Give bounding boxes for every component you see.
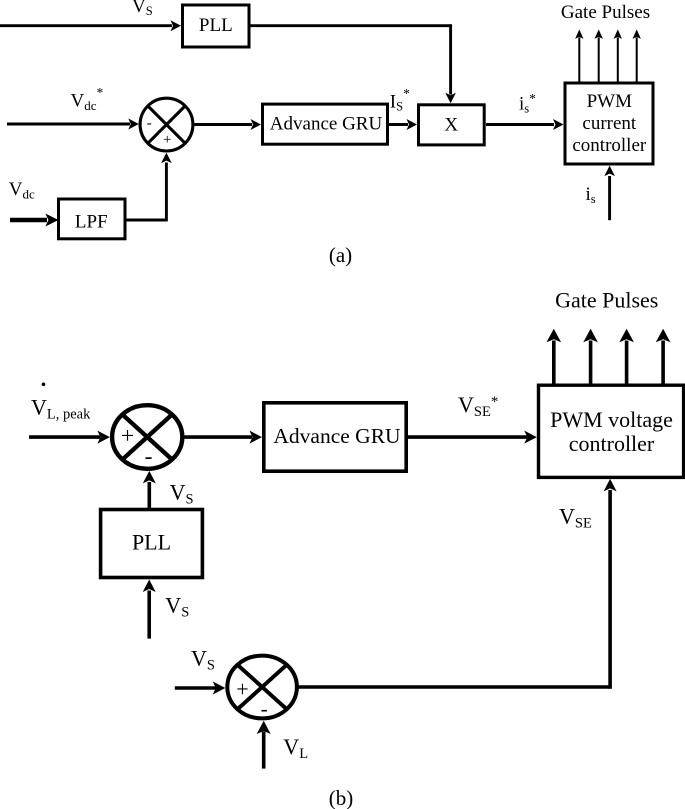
svg-text:Gate Pulses: Gate Pulses — [555, 288, 658, 313]
wire Vs input to PLL — [0, 20, 181, 31]
svg-text:-: - — [261, 696, 268, 720]
wire S2 to Advance GRU (b) — [184, 431, 262, 444]
gate pulse arrow b4 (thick) — [656, 329, 671, 386]
summing junction S1 — [140, 98, 193, 151]
svg-text:PWM: PWM — [587, 91, 633, 112]
svg-text:+: + — [163, 132, 171, 148]
wire Vs input to junction S3 — [175, 682, 226, 695]
gate pulse arrow a4 — [633, 29, 641, 81]
svg-text:(a): (a) — [329, 243, 352, 267]
wire S3 to PWM voltage controller — [297, 479, 617, 689]
svg-text:Advance GRU: Advance GRU — [273, 424, 401, 448]
label Vs into PLL (b) — [165, 593, 189, 621]
label Gate Pulses (b) — [555, 288, 658, 313]
label Gate Pulses (a) — [561, 2, 650, 23]
wire Advance GRU to PWM voltage controller — [408, 431, 537, 444]
label VL — [283, 734, 308, 762]
wire Vs input into PLL (b) — [143, 580, 156, 639]
svg-text:+: + — [236, 677, 248, 702]
wire X to PWM current controller — [486, 119, 564, 130]
wire VLpeak input to junction S2 — [29, 431, 110, 444]
block multiplier X — [419, 105, 485, 145]
gate pulse arrow a3 — [614, 29, 622, 81]
wire S1 to Advance GRU (a) — [194, 119, 261, 130]
summing junction S3 — [227, 656, 297, 721]
wire PLL (b) to junction S2 — [143, 471, 156, 508]
svg-text:current: current — [582, 113, 637, 134]
label is feedback — [586, 184, 596, 206]
svg-text:Gate Pulses: Gate Pulses — [561, 2, 650, 23]
svg-text:controller: controller — [569, 431, 655, 456]
label Vdc — [9, 179, 35, 202]
wire PLL to multiplier X — [249, 24, 456, 103]
wire is feedback into PWM current controller — [604, 166, 615, 221]
block PLL (b) — [101, 510, 203, 578]
label VSE feedback — [559, 504, 592, 532]
svg-text:-: - — [147, 116, 152, 132]
block Advance GRU (b) — [264, 403, 406, 471]
label Vdc* — [71, 85, 104, 113]
label (a) — [329, 243, 352, 267]
label VSE* — [458, 392, 498, 420]
label is* — [519, 91, 536, 116]
svg-text:PLL: PLL — [132, 530, 171, 555]
svg-text:Advance GRU: Advance GRU — [270, 114, 383, 135]
wire Advance GRU to X — [389, 119, 417, 130]
gate pulse arrow b3 (thick) — [619, 329, 634, 386]
label Vs above PLL (b) — [170, 480, 194, 508]
block LPF — [59, 199, 126, 239]
summing junction S2 — [112, 405, 182, 469]
svg-text:LPF: LPF — [75, 212, 108, 233]
block PLL (a) — [183, 5, 250, 47]
block PWM current controller — [565, 83, 653, 164]
svg-text:+: + — [121, 423, 134, 449]
svg-text:-: - — [145, 444, 153, 470]
gate pulse arrow b1 (thick) — [547, 329, 562, 386]
wire Vdc* input to junction S1 — [7, 119, 139, 130]
svg-text:PWM voltage: PWM voltage — [550, 407, 673, 432]
label (b) — [329, 786, 354, 809]
svg-text:PLL: PLL — [199, 15, 233, 36]
block PWM voltage controller — [539, 385, 684, 477]
gate pulse arrow a1 — [575, 29, 583, 81]
svg-text:controller: controller — [572, 135, 647, 156]
wire VL input to junction S3 — [257, 721, 271, 769]
block Advance GRU (a) — [263, 104, 388, 144]
svg-text:(b): (b) — [329, 786, 354, 809]
label VL,peak with dot — [31, 383, 91, 423]
svg-text:X: X — [444, 115, 458, 136]
gate pulse arrow a2 — [595, 29, 603, 81]
label Vs (a) — [132, 0, 153, 18]
wire LPF to junction S1 — [125, 153, 172, 222]
label Is* — [390, 86, 410, 114]
gate pulse arrow b2 (thick) — [583, 329, 598, 386]
label Vs into junction S3 — [191, 646, 215, 674]
wire Vdc input to LPF (thick) — [10, 214, 58, 227]
